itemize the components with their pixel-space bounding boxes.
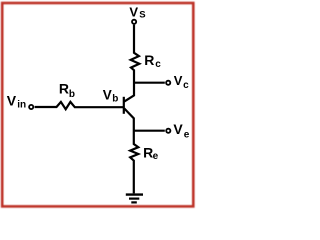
svg-text:e: e bbox=[153, 151, 159, 162]
svg-text:b: b bbox=[69, 89, 75, 100]
svg-text:e: e bbox=[184, 129, 190, 140]
svg-text:S: S bbox=[139, 9, 145, 20]
svg-text:V: V bbox=[174, 73, 183, 88]
svg-text:c: c bbox=[155, 59, 161, 70]
svg-text:c: c bbox=[183, 80, 189, 91]
svg-text:R: R bbox=[59, 80, 69, 96]
svg-text:V: V bbox=[103, 88, 112, 103]
svg-text:V: V bbox=[173, 121, 183, 137]
svg-text:V: V bbox=[129, 4, 138, 19]
svg-text:b: b bbox=[112, 94, 118, 105]
svg-text:in: in bbox=[17, 99, 26, 110]
svg-text:V: V bbox=[7, 92, 17, 108]
svg-text:R: R bbox=[144, 52, 154, 68]
